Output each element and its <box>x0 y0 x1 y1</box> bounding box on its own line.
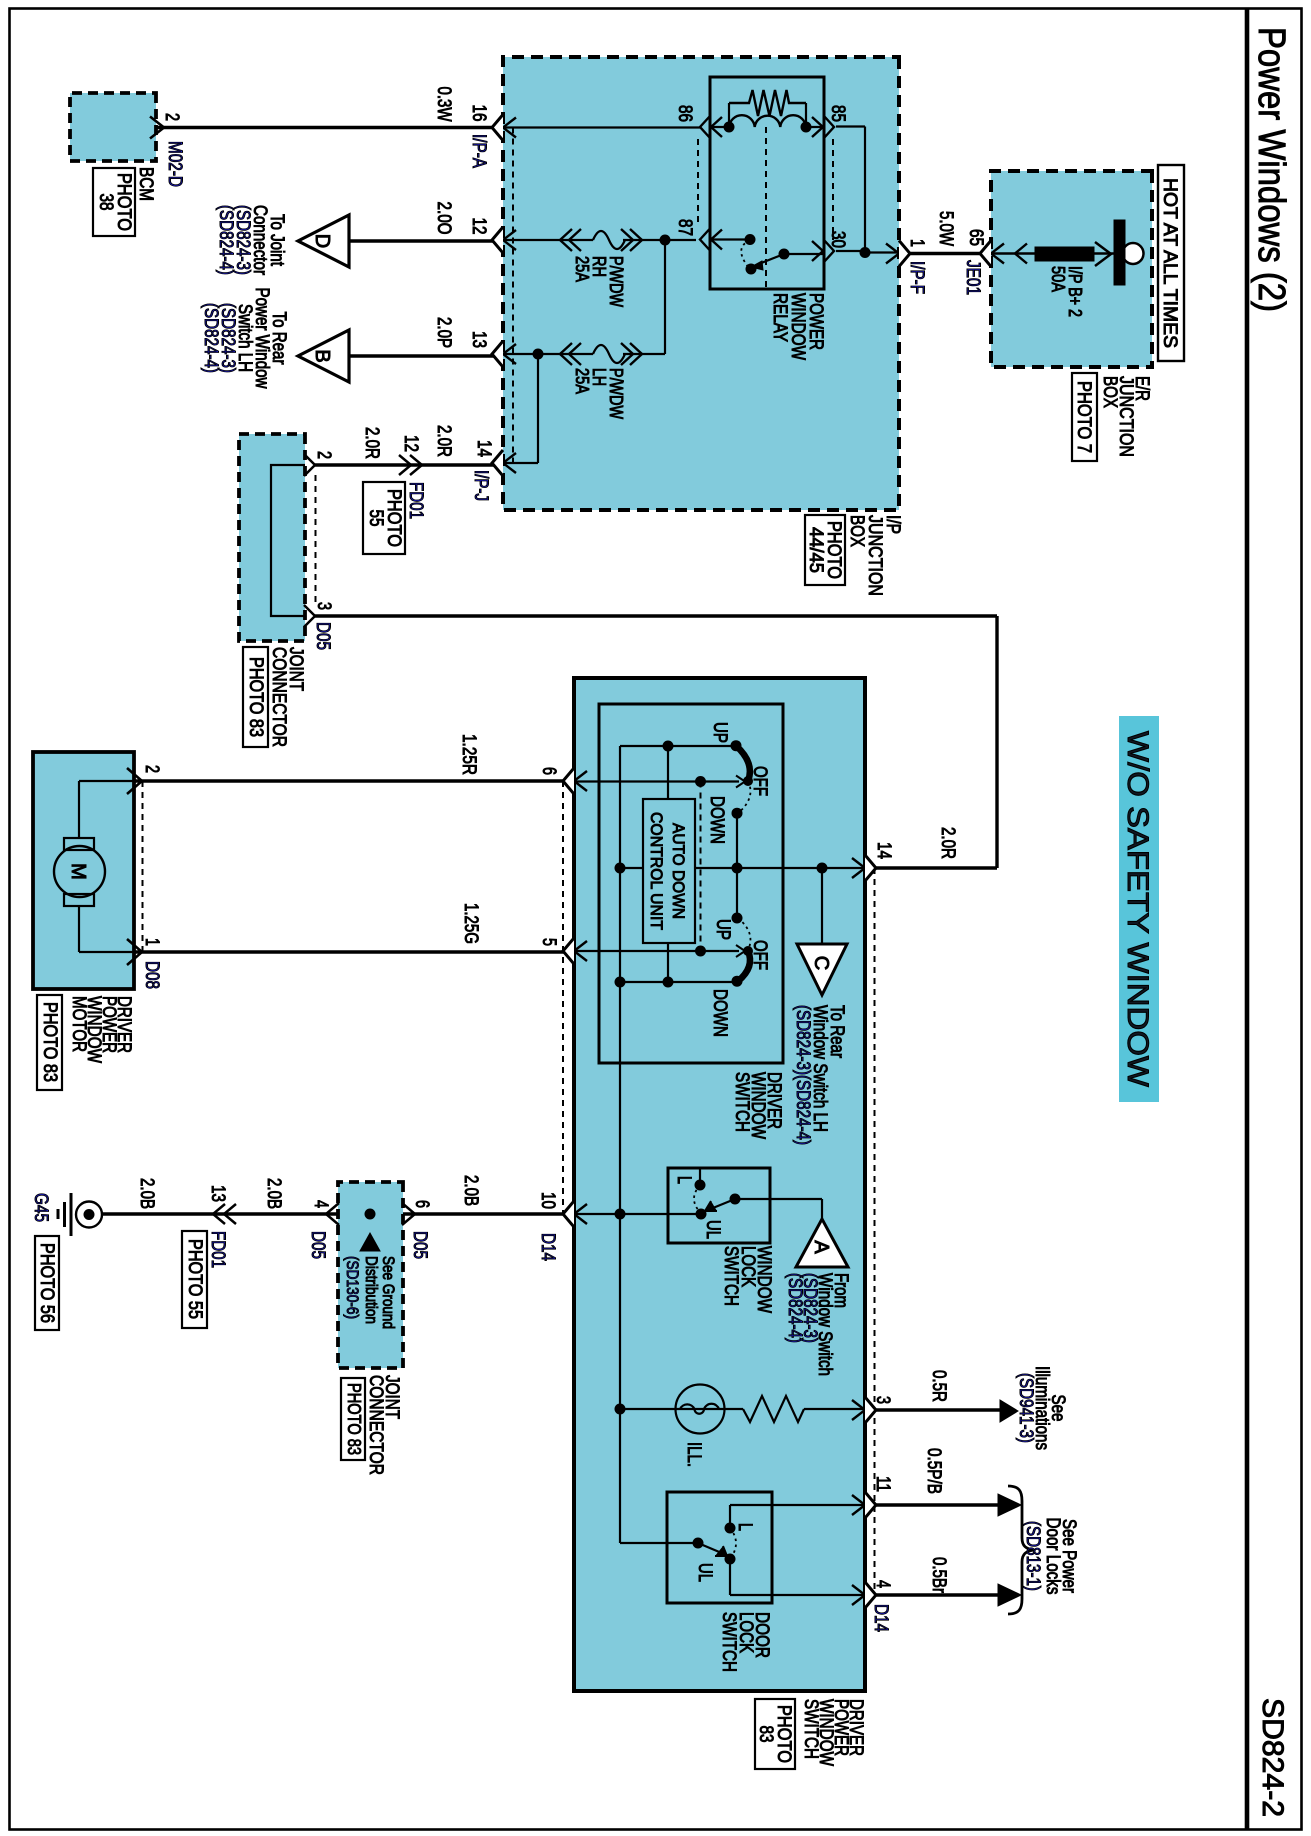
svg-text:AUTO DOWN: AUTO DOWN <box>669 823 688 919</box>
svg-text:25A: 25A <box>572 256 592 282</box>
svg-text:D05: D05 <box>409 1231 430 1259</box>
svg-text:PHOTO 83: PHOTO 83 <box>245 657 266 737</box>
svg-text:HOT AT ALL TIMES: HOT AT ALL TIMES <box>1159 178 1180 348</box>
svg-text:2.0B: 2.0B <box>460 1175 481 1206</box>
svg-text:13: 13 <box>207 1185 228 1202</box>
svg-text:4: 4 <box>310 1200 331 1208</box>
svg-text:RELAY: RELAY <box>769 293 790 342</box>
svg-text:DOWN: DOWN <box>709 989 730 1037</box>
svg-text:2.0B: 2.0B <box>263 1178 284 1209</box>
svg-text:BOX: BOX <box>846 515 867 547</box>
svg-text:I/P-J: I/P-J <box>470 470 491 501</box>
svg-text:Door Locks: Door Locks <box>1042 1518 1063 1595</box>
svg-text:1: 1 <box>141 938 162 946</box>
svg-text:SWITCH: SWITCH <box>718 1612 739 1672</box>
svg-text:I/P-F: I/P-F <box>906 261 927 294</box>
svg-text:L: L <box>673 1176 694 1184</box>
svg-text:0.5P/B: 0.5P/B <box>923 1448 944 1494</box>
svg-text:UL: UL <box>694 1563 715 1582</box>
svg-text:14: 14 <box>473 440 494 457</box>
svg-text:(SD824-4): (SD824-4) <box>200 303 221 373</box>
svg-text:0.3W: 0.3W <box>433 87 454 122</box>
svg-text:D08: D08 <box>141 961 162 989</box>
svg-text:UP: UP <box>709 722 730 743</box>
svg-text:13: 13 <box>468 331 489 348</box>
svg-text:1.25R: 1.25R <box>458 734 479 775</box>
svg-text:DOWN: DOWN <box>706 796 727 844</box>
svg-text:D05: D05 <box>307 1231 328 1259</box>
svg-text:SWITCH: SWITCH <box>720 1246 741 1306</box>
svg-text:2.0P: 2.0P <box>433 317 454 348</box>
svg-text:16: 16 <box>468 105 489 122</box>
svg-text:25A: 25A <box>572 368 592 394</box>
svg-text:5: 5 <box>538 938 559 946</box>
svg-text:30: 30 <box>827 231 848 248</box>
svg-text:BOX: BOX <box>1099 376 1120 408</box>
svg-text:5.0W: 5.0W <box>935 211 956 246</box>
svg-text:11: 11 <box>872 1476 893 1492</box>
svg-text:B: B <box>311 349 333 362</box>
svg-text:2: 2 <box>141 765 162 773</box>
svg-text:SWITCH: SWITCH <box>731 1072 752 1132</box>
svg-text:I/P-A: I/P-A <box>468 134 489 168</box>
svg-text:D14: D14 <box>870 1604 891 1632</box>
svg-text:14: 14 <box>873 842 894 859</box>
svg-text:2: 2 <box>161 113 182 121</box>
svg-text:W/O SAFETY WINDOW: W/O SAFETY WINDOW <box>1121 731 1154 1088</box>
svg-text:MOTOR: MOTOR <box>68 996 89 1052</box>
svg-text:(SD130-6): (SD130-6) <box>343 1256 362 1319</box>
svg-text:OFF: OFF <box>749 940 770 970</box>
svg-text:2.0R: 2.0R <box>361 427 382 459</box>
svg-text:D14: D14 <box>537 1233 558 1261</box>
svg-text:PHOTO 55: PHOTO 55 <box>184 1239 205 1319</box>
svg-text:SD824-2: SD824-2 <box>1256 1698 1289 1817</box>
svg-text:0.5R: 0.5R <box>928 1370 949 1402</box>
svg-text:38: 38 <box>95 194 116 211</box>
svg-text:6: 6 <box>411 1200 432 1208</box>
svg-text:2.0B: 2.0B <box>136 1178 157 1209</box>
svg-text:(SD813-1): (SD813-1) <box>1022 1521 1043 1591</box>
svg-text:PHOTO 56: PHOTO 56 <box>36 1243 57 1323</box>
svg-text:3: 3 <box>872 1396 893 1404</box>
svg-text:12: 12 <box>468 218 489 235</box>
svg-text:G45: G45 <box>30 1193 51 1222</box>
svg-text:FD01: FD01 <box>207 1231 228 1268</box>
svg-text:(SD941-3): (SD941-3) <box>1015 1373 1036 1443</box>
svg-text:Power Windows (2): Power Windows (2) <box>1250 27 1292 312</box>
svg-text:C: C <box>810 956 832 970</box>
svg-text:CONNECTOR: CONNECTOR <box>365 1375 386 1475</box>
svg-text:(SD824-4): (SD824-4) <box>784 1273 805 1343</box>
svg-text:1: 1 <box>906 239 927 247</box>
svg-text:M: M <box>67 863 89 880</box>
svg-text:0.5Br: 0.5Br <box>928 1557 949 1594</box>
svg-text:SWITCH: SWITCH <box>800 1699 821 1759</box>
svg-text:4: 4 <box>872 1580 893 1588</box>
svg-text:85: 85 <box>827 105 848 122</box>
svg-text:PHOTO 83: PHOTO 83 <box>39 1002 60 1082</box>
svg-text:86: 86 <box>674 105 695 122</box>
svg-text:55: 55 <box>365 510 386 527</box>
svg-text:2.0R: 2.0R <box>937 827 958 859</box>
svg-text:CONNECTOR: CONNECTOR <box>268 647 289 747</box>
svg-text:12: 12 <box>400 435 421 452</box>
svg-text:83: 83 <box>755 1726 776 1743</box>
svg-text:10: 10 <box>537 1192 558 1209</box>
svg-text:A: A <box>810 1240 832 1254</box>
svg-text:6: 6 <box>538 767 559 775</box>
svg-text:JE01: JE01 <box>962 260 983 295</box>
svg-text:D05: D05 <box>312 622 333 650</box>
svg-text:BCM: BCM <box>135 167 156 201</box>
svg-text:UL: UL <box>702 1220 723 1239</box>
svg-text:M02-D: M02-D <box>164 141 185 187</box>
svg-text:ILL.: ILL. <box>683 1442 704 1467</box>
svg-text:(SD824-4): (SD824-4) <box>215 205 236 275</box>
svg-text:PHOTO 7: PHOTO 7 <box>1073 381 1094 453</box>
svg-text:3: 3 <box>313 602 334 610</box>
svg-text:L: L <box>734 1523 755 1531</box>
svg-text:65: 65 <box>965 229 986 246</box>
svg-text:2.0O: 2.0O <box>433 202 454 235</box>
svg-text:UP: UP <box>712 919 733 940</box>
svg-text:1.25G: 1.25G <box>460 903 481 944</box>
svg-text:FD01: FD01 <box>405 482 426 519</box>
svg-text:CONTROL UNIT: CONTROL UNIT <box>647 812 666 930</box>
svg-text:87: 87 <box>674 219 695 236</box>
svg-text:OFF: OFF <box>749 766 770 796</box>
svg-text:2.0R: 2.0R <box>433 425 454 457</box>
svg-text:PHOTO 83: PHOTO 83 <box>344 1383 364 1455</box>
svg-text:44/45: 44/45 <box>805 527 826 573</box>
svg-text:50A: 50A <box>1048 266 1068 292</box>
svg-text:D: D <box>311 234 333 248</box>
svg-text:Distribution: Distribution <box>362 1256 381 1324</box>
svg-text:2: 2 <box>313 451 334 459</box>
svg-text:(SD824-3)(SD824-4): (SD824-3)(SD824-4) <box>792 1005 813 1145</box>
